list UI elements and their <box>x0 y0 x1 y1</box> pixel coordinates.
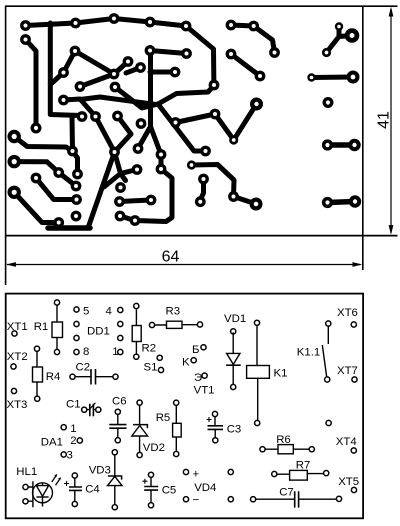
svg-text:XT5: XT5 <box>338 476 359 488</box>
svg-text:VT1: VT1 <box>194 384 215 396</box>
svg-text:XT2: XT2 <box>7 351 28 363</box>
svg-text:R2: R2 <box>142 343 157 355</box>
svg-text:C7: C7 <box>279 487 294 499</box>
svg-text:8: 8 <box>83 346 89 358</box>
svg-text:41: 41 <box>376 111 393 129</box>
svg-text:K1: K1 <box>274 368 288 380</box>
svg-text:VD3: VD3 <box>89 465 111 477</box>
svg-text:XT7: XT7 <box>337 365 358 377</box>
svg-text:Б: Б <box>192 344 199 356</box>
svg-text:R4: R4 <box>46 371 61 383</box>
svg-text:1: 1 <box>70 423 76 435</box>
svg-text:XT4: XT4 <box>336 436 357 448</box>
svg-text:K1.1: K1.1 <box>297 346 320 358</box>
svg-text:VD4: VD4 <box>194 482 216 494</box>
svg-text:K: K <box>182 356 190 368</box>
svg-text:64: 64 <box>162 249 180 266</box>
svg-text:Э: Э <box>194 372 202 384</box>
svg-text:R6: R6 <box>276 434 291 446</box>
svg-text:C5: C5 <box>162 485 177 497</box>
svg-text:4: 4 <box>106 306 112 318</box>
svg-text:DD1: DD1 <box>87 326 110 338</box>
svg-text:R5: R5 <box>156 412 171 424</box>
svg-text:C2: C2 <box>76 362 91 374</box>
svg-text:5: 5 <box>83 306 89 318</box>
svg-text:VD1: VD1 <box>224 313 246 325</box>
svg-text:C6: C6 <box>112 396 127 408</box>
svg-text:R7: R7 <box>296 459 311 471</box>
svg-text:R3: R3 <box>166 306 181 318</box>
svg-text:XT3: XT3 <box>7 399 28 411</box>
svg-text:S1: S1 <box>144 362 158 374</box>
svg-text:C4: C4 <box>85 484 100 496</box>
svg-text:R1: R1 <box>34 321 49 333</box>
svg-text:1: 1 <box>112 346 118 358</box>
svg-text:3: 3 <box>67 450 73 462</box>
svg-text:DA1: DA1 <box>41 437 63 449</box>
svg-text:HL1: HL1 <box>16 466 37 478</box>
svg-text:C3: C3 <box>227 424 242 436</box>
svg-text:−: − <box>193 495 200 507</box>
svg-text:XT1: XT1 <box>7 321 28 333</box>
svg-text:C1: C1 <box>66 399 81 411</box>
svg-text:VD2: VD2 <box>143 442 165 454</box>
svg-text:XT6: XT6 <box>337 307 358 319</box>
svg-text:2: 2 <box>70 435 76 447</box>
svg-text:+: + <box>193 469 200 481</box>
